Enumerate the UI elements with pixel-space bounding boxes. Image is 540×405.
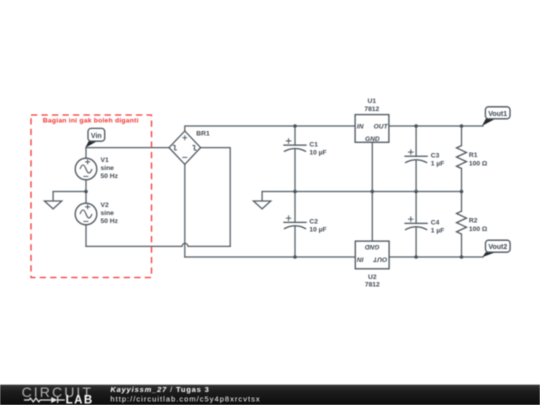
svg-text:1 µF: 1 µF: [431, 228, 445, 235]
svg-text:IN: IN: [357, 123, 364, 130]
svg-text:OUT: OUT: [372, 255, 387, 262]
flag Vout1: [482, 107, 510, 126]
wire U1 GND to U2 GND: [371, 142, 373, 241]
node C3 top: [414, 124, 418, 128]
wire C4 leads: [415, 192, 417, 258]
node R1/R2 ground: [460, 190, 464, 194]
label C2 name/value 10 uF: [309, 219, 326, 234]
node C4 bottom: [414, 255, 418, 259]
U2 pin labels IN/OUT/GND (rotated): [357, 243, 388, 262]
svg-text:http://circuitlab.com/c5y4p8xr: http://circuitlab.com/c5y4p8xrcvtsx: [110, 395, 260, 404]
svg-text:50 Hz: 50 Hz: [101, 218, 119, 225]
wire U1 OUT rail: [389, 125, 483, 127]
node C1/C2 ground: [293, 190, 297, 194]
wire riser to bridge right vertex: [201, 148, 231, 247]
svg-text:U2: U2: [368, 274, 377, 281]
node V1-V2 midpoint: [84, 190, 88, 194]
label U2 name/value 7812: [365, 274, 380, 288]
wire bridge top to U1 IN: [185, 126, 355, 131]
voltage source V2: [75, 203, 97, 225]
logo resistor-diode squiggle: [24, 397, 65, 403]
wire V2 bottom down: [85, 225, 87, 247]
svg-text:sine: sine: [101, 165, 115, 172]
wire V1 to V2: [85, 180, 87, 203]
wire U2 OUT rail: [389, 256, 483, 258]
wire ground stub left: [52, 192, 54, 201]
U1 pin labels IN/OUT/GND: [357, 123, 389, 143]
capacitor C4: [404, 216, 427, 230]
svg-text:U1: U1: [368, 98, 377, 105]
label R2 name/value 100 Ohm: [469, 217, 488, 233]
capacitor C3: [404, 149, 427, 163]
svg-text:V1: V1: [101, 157, 109, 164]
label V1 name/value (sine 50 Hz): [101, 157, 119, 180]
node R2 bottom: [460, 255, 464, 259]
svg-text:R1: R1: [469, 152, 478, 159]
svg-text:R2: R2: [469, 217, 478, 224]
voltage source V1: [75, 158, 97, 180]
label C1 name/value 10 uF: [309, 141, 326, 156]
regulator U1 7812: [355, 115, 389, 143]
svg-text:Vout1: Vout1: [488, 111, 507, 118]
wire C1 leads: [294, 126, 296, 192]
label C3 name/value 1 uF: [431, 153, 445, 168]
flag Vin: [85, 128, 104, 147]
svg-text:LAB: LAB: [66, 394, 94, 405]
wire C3 leads: [415, 126, 417, 192]
label R1 name/value 100 Ohm: [469, 152, 488, 168]
wire bridge bottom down: [184, 164, 186, 257]
label V2 name/value (sine 50 Hz): [101, 202, 119, 225]
svg-text:Kayyissm_27 / Tugas 3: Kayyissm_27 / Tugas 3: [110, 385, 209, 394]
svg-text:GND: GND: [365, 136, 380, 143]
resistor R1: [457, 146, 467, 169]
ground (left, under V1/V2 midpoint): [44, 201, 61, 209]
wire Vin to bridge left: [86, 147, 169, 149]
svg-text:Bagian ini gak boleh diganti: Bagian ini gak boleh diganti: [43, 117, 139, 124]
svg-text:Vout2: Vout2: [488, 244, 507, 251]
ground (middle, supply common): [253, 201, 270, 209]
wire ground rail: [262, 191, 461, 193]
svg-text:50 Hz: 50 Hz: [101, 173, 119, 180]
node C1 top: [293, 124, 297, 128]
wire C2 leads: [294, 192, 296, 258]
wire V1 top stub: [85, 148, 87, 159]
label U1 name/value 7812: [364, 98, 379, 113]
svg-text:10 µF: 10 µF: [309, 227, 326, 234]
wire R1 leads: [461, 126, 463, 192]
wire negative rail to U2 IN: [185, 256, 355, 258]
svg-text:OUT: OUT: [374, 123, 389, 130]
bridge rectifier BR1: [169, 131, 201, 164]
node C3/C4 ground: [414, 190, 418, 194]
capacitor C2: [283, 215, 306, 229]
svg-text:sine: sine: [101, 210, 115, 217]
capacitor C1: [283, 138, 306, 152]
svg-text:C3: C3: [431, 153, 440, 160]
node U1/U2 GND: [371, 190, 375, 194]
svg-text:C4: C4: [431, 220, 440, 227]
svg-text:IN: IN: [357, 255, 364, 262]
node junction dots: [84, 124, 463, 259]
wire R2 leads: [461, 192, 463, 258]
wire ground branch left: [53, 191, 86, 193]
svg-text:Vin: Vin: [91, 133, 102, 140]
svg-text:BR1: BR1: [196, 130, 210, 137]
svg-text:V2: V2: [101, 202, 109, 209]
node R1 top: [460, 124, 464, 128]
svg-text:C1: C1: [309, 141, 318, 148]
regulator U2 7912 (rotated 180): [355, 241, 389, 269]
svg-text:7812: 7812: [365, 281, 380, 288]
svg-text:7812: 7812: [364, 106, 379, 113]
footer bar: [0, 385, 540, 405]
svg-text:GND: GND: [365, 243, 380, 250]
flag Vout2: [482, 240, 510, 257]
svg-text:100 Ω: 100 Ω: [469, 226, 488, 233]
node C2 bottom: [293, 255, 297, 259]
svg-text:10 µF: 10 µF: [309, 149, 326, 156]
label C4 name/value 1 uF: [431, 220, 445, 235]
wire middle ground stub: [261, 192, 263, 201]
svg-text:1 µF: 1 µF: [431, 161, 445, 168]
svg-text:C2: C2: [309, 219, 318, 226]
wire bottom AC return with hop: [86, 243, 230, 246]
resistor R2: [457, 211, 467, 234]
annotation red dashed box: [31, 115, 152, 278]
svg-text:100 Ω: 100 Ω: [469, 161, 488, 168]
